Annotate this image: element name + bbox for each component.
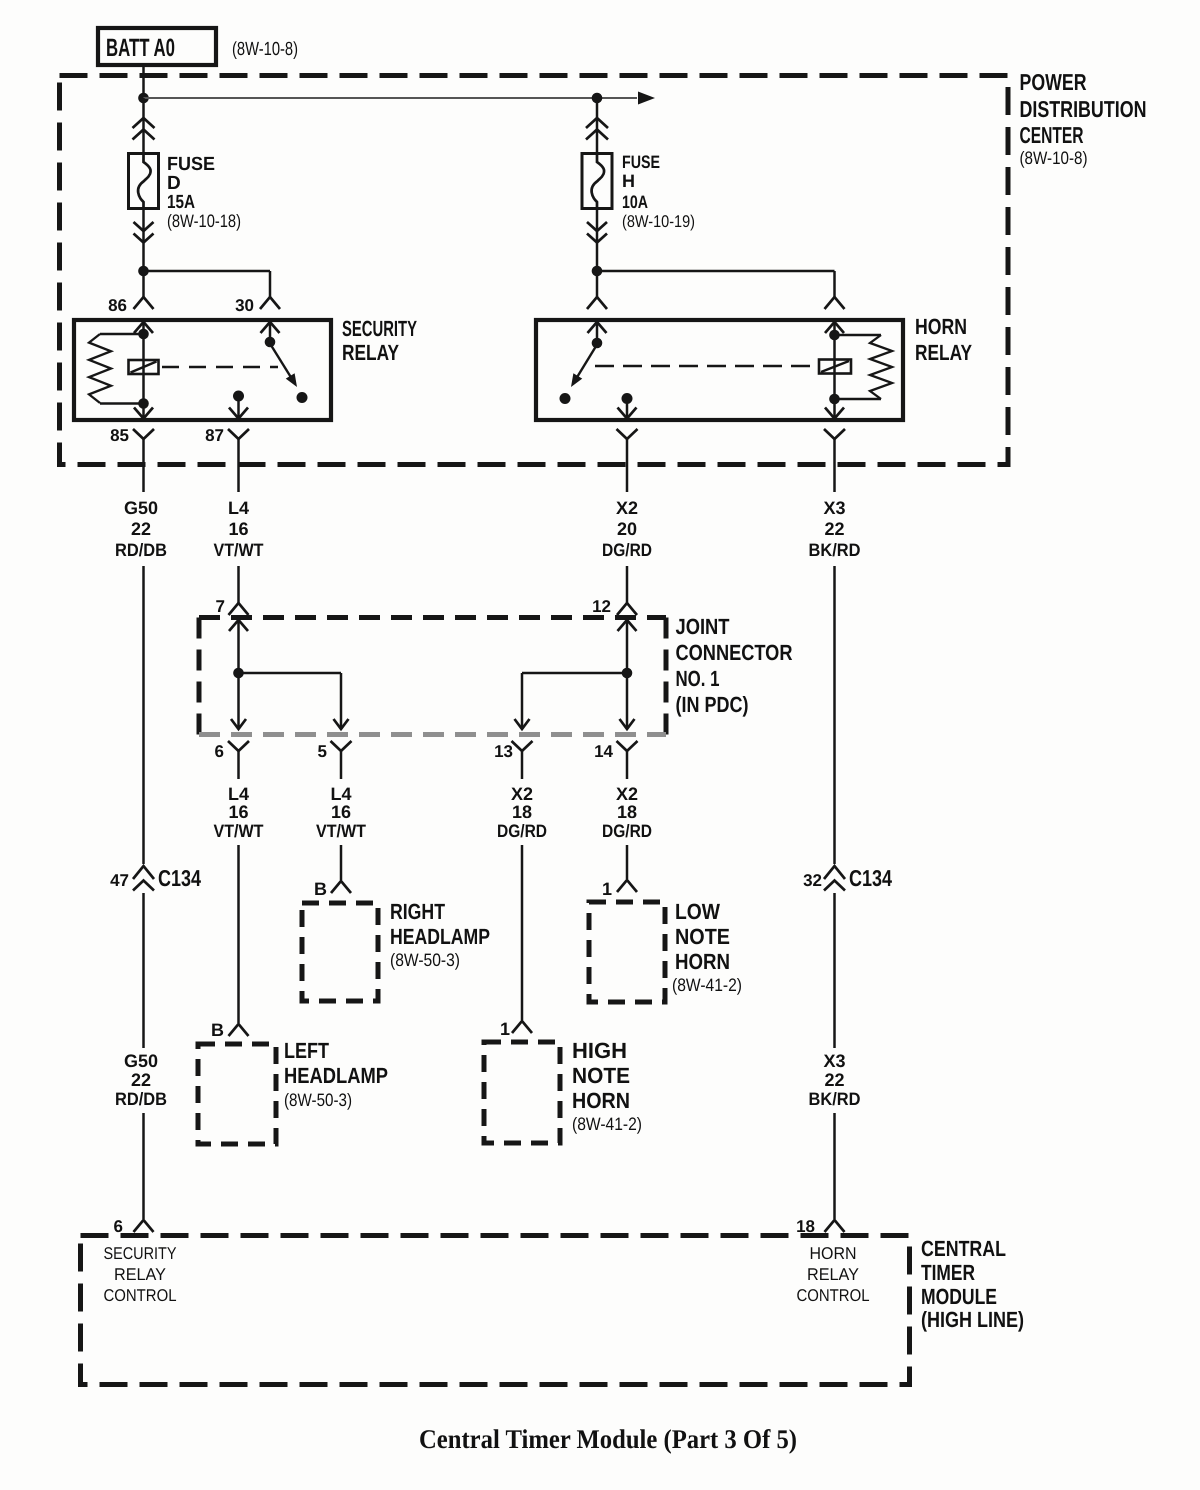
wire from BATT A0 down to bus node xyxy=(142,65,145,98)
pin 86 label xyxy=(108,296,127,315)
pin B right headlamp connector xyxy=(331,881,351,893)
horn output fork connector xyxy=(617,429,638,455)
left headlamp labels xyxy=(284,1038,388,1110)
wire label G50 22 RD/DB lower xyxy=(115,1051,167,1109)
power distribution center dashed box xyxy=(60,76,1009,465)
pin 18 CTM connector xyxy=(825,1220,845,1232)
arrow to pin 13 xyxy=(515,719,530,729)
horn relay output exit chevron xyxy=(618,408,637,419)
wire joint right branch xyxy=(522,673,627,727)
svg-text:X2: X2 xyxy=(616,498,638,518)
svg-text:RD/DB: RD/DB xyxy=(115,540,167,560)
svg-text:18: 18 xyxy=(617,802,637,822)
svg-text:HEADLAMP: HEADLAMP xyxy=(284,1063,388,1088)
svg-text:(8W-10-18): (8W-10-18) xyxy=(167,211,241,231)
pin 6 CTM connector xyxy=(134,1220,154,1232)
pin 1 high note horn label xyxy=(500,1019,510,1039)
node pin 87 contact xyxy=(233,391,244,402)
coil security relay xyxy=(129,334,159,404)
svg-text:VT/WT: VT/WT xyxy=(214,540,264,560)
resistor horn relay xyxy=(835,335,893,399)
wire pin13 to high note horn xyxy=(521,845,524,1020)
svg-text:47: 47 xyxy=(110,871,129,890)
wire node to pin 30 drop xyxy=(144,271,271,297)
wire horn switch pin to pivot xyxy=(596,322,599,343)
wire horn output down xyxy=(626,399,629,420)
svg-text:20: 20 xyxy=(617,519,637,539)
svg-text:BATT A0: BATT A0 xyxy=(106,34,175,62)
svg-text:MODULE: MODULE xyxy=(921,1284,997,1309)
connector C134 right chevrons xyxy=(824,866,845,891)
wire X2 to joint pin 12 xyxy=(626,566,629,603)
contact dot horn switch xyxy=(560,393,571,404)
horn relay coil exit chevron xyxy=(825,408,844,419)
joint pin 7 entry chevron xyxy=(229,620,248,631)
svg-text:RELAY: RELAY xyxy=(807,1265,859,1284)
node fuse H output xyxy=(592,266,603,277)
wire pin14 to low note horn xyxy=(626,845,629,879)
component LOW NOTE HORN dashed box xyxy=(589,902,665,1002)
joint connector no.1 dashed box xyxy=(199,618,666,735)
arrow to pin 5 xyxy=(334,719,349,729)
horn relay switch pin connector xyxy=(587,297,607,309)
svg-text:L4: L4 xyxy=(228,784,249,804)
svg-text:CONTROL: CONTROL xyxy=(797,1286,870,1305)
horn relay name xyxy=(915,314,972,365)
wire G50 to CTM pin 6 xyxy=(142,893,145,1219)
relay SECURITY RELAY box xyxy=(74,320,331,420)
wire label L4 16 VT/WT upper xyxy=(214,498,264,560)
connector C134 right labels xyxy=(803,865,892,891)
wire label L4 16 VT/WT pin5 xyxy=(316,784,366,841)
svg-text:B: B xyxy=(314,879,327,899)
svg-text:NOTE: NOTE xyxy=(675,924,730,949)
svg-text:RIGHT: RIGHT xyxy=(390,899,445,924)
power distribution center title xyxy=(1020,69,1147,168)
svg-text:X3: X3 xyxy=(823,1051,845,1071)
pin 14 label xyxy=(594,742,613,761)
svg-text:(IN PDC): (IN PDC) xyxy=(676,692,749,717)
svg-text:(8W-10-8): (8W-10-8) xyxy=(232,39,298,60)
pin 6 fork connector xyxy=(228,741,249,767)
pin 87 label xyxy=(205,426,224,445)
svg-text:HORN: HORN xyxy=(810,1244,857,1263)
svg-text:HIGH: HIGH xyxy=(572,1038,627,1063)
pin 5 fork connector xyxy=(331,741,352,767)
svg-text:(8W-50-3): (8W-50-3) xyxy=(390,950,460,970)
svg-text:DG/RD: DG/RD xyxy=(602,540,652,560)
horn coil fork connector xyxy=(824,429,845,455)
wire label X2 18 DG/RD pin14 xyxy=(602,784,652,841)
svg-text:LOW: LOW xyxy=(675,899,720,924)
switch arm horn relay xyxy=(571,347,596,387)
horn relay switch entry chevron xyxy=(588,322,607,333)
connector C134 left chevrons xyxy=(133,866,154,891)
svg-text:L4: L4 xyxy=(330,784,351,804)
caption Central Timer Module (Part 3 Of 5) xyxy=(419,1424,797,1454)
pin 13 fork connector xyxy=(512,741,533,767)
wire horn coil to exit xyxy=(833,399,836,419)
svg-text:SECURITY: SECURITY xyxy=(104,1244,177,1263)
wire label L4 16 VT/WT pin6 xyxy=(214,784,264,841)
wire label X3 22 BK/RD upper xyxy=(809,498,861,560)
wire X2 upper segment xyxy=(626,455,629,492)
node security coil bottom xyxy=(138,398,149,409)
svg-text:22: 22 xyxy=(131,1070,151,1090)
svg-text:13: 13 xyxy=(494,742,513,761)
pin B left headlamp connector xyxy=(229,1024,249,1036)
svg-text:X2: X2 xyxy=(616,784,638,804)
svg-text:C134: C134 xyxy=(849,865,892,891)
svg-text:(8W-41-2): (8W-41-2) xyxy=(572,1114,642,1134)
low note horn labels xyxy=(672,899,742,995)
node joint right xyxy=(622,668,633,679)
svg-text:CENTRAL: CENTRAL xyxy=(921,1236,1006,1261)
svg-text:FUSE: FUSE xyxy=(622,152,660,172)
svg-text:G50: G50 xyxy=(124,1051,158,1071)
connector chevrons above fuse D xyxy=(133,118,155,140)
wire X3 to CTM pin 18 xyxy=(833,893,836,1219)
wire fuse D to node xyxy=(142,209,145,272)
component RIGHT HEADLAMP dashed box xyxy=(302,903,378,1001)
wire node down to horn switch pin xyxy=(596,271,599,297)
svg-text:LEFT: LEFT xyxy=(284,1038,329,1063)
wire security coil to pin 85 xyxy=(142,404,145,420)
node security coil top xyxy=(138,329,149,340)
svg-text:H: H xyxy=(622,171,635,191)
wire label X3 22 BK/RD lower xyxy=(809,1051,861,1109)
svg-text:(8W-41-2): (8W-41-2) xyxy=(672,975,742,995)
horn relay coil pin connector xyxy=(825,297,845,309)
svg-text:(8W-10-8): (8W-10-8) xyxy=(1020,148,1088,168)
svg-text:SECURITY: SECURITY xyxy=(342,316,417,341)
fuse D labels xyxy=(167,154,241,231)
pin 7 connector xyxy=(229,603,249,615)
pin 7 label xyxy=(216,597,225,616)
wire L4 to joint pin 7 xyxy=(237,566,240,603)
svg-text:7: 7 xyxy=(216,597,225,616)
node bus junction left xyxy=(138,93,149,104)
wire pin5 to right headlamp xyxy=(340,845,343,880)
pin 18 CTM label xyxy=(796,1217,815,1236)
svg-text:1: 1 xyxy=(500,1019,510,1039)
svg-text:X3: X3 xyxy=(823,498,845,518)
pin 14 fork connector xyxy=(617,741,638,767)
wire joint left branch xyxy=(239,673,342,727)
fuse H xyxy=(582,154,612,209)
svg-text:DG/RD: DG/RD xyxy=(497,821,547,841)
wire label G50 22 RD/DB upper xyxy=(115,498,167,560)
arrow to pin 14 xyxy=(620,719,635,729)
contact dot security switch xyxy=(297,392,308,403)
svg-text:RELAY: RELAY xyxy=(915,340,972,365)
pin 30 connector xyxy=(260,297,280,309)
pin 1 low note horn connector xyxy=(617,880,637,892)
wire label X2 18 DG/RD pin13 xyxy=(497,784,547,841)
svg-text:22: 22 xyxy=(824,1070,844,1090)
wire joint pin 7 to node xyxy=(237,620,240,673)
svg-text:86: 86 xyxy=(108,296,127,315)
svg-text:CONTROL: CONTROL xyxy=(104,1286,177,1305)
svg-text:X2: X2 xyxy=(511,784,533,804)
wire pin6 segment xyxy=(237,767,240,779)
connector chevrons below fuse H xyxy=(587,222,607,243)
security relay pin 30 entry chevron xyxy=(261,322,280,333)
svg-text:16: 16 xyxy=(331,802,351,822)
horn relay control label xyxy=(797,1244,870,1305)
wire joint pin 14 drop xyxy=(626,673,629,727)
svg-text:HEADLAMP: HEADLAMP xyxy=(390,924,490,949)
node fuse D output xyxy=(138,266,149,277)
node horn coil top xyxy=(829,330,840,341)
svg-text:18: 18 xyxy=(512,802,532,822)
svg-text:DISTRIBUTION: DISTRIBUTION xyxy=(1020,96,1147,122)
wire L4 upper segment xyxy=(237,455,240,492)
bus continuation arrow xyxy=(638,92,655,105)
wire joint pin 6 drop xyxy=(237,673,240,727)
component LEFT HEADLAMP dashed box xyxy=(198,1044,276,1144)
svg-text:14: 14 xyxy=(594,742,613,761)
pin 6 CTM label xyxy=(114,1217,123,1236)
svg-text:32: 32 xyxy=(803,871,822,890)
switch arm security relay xyxy=(272,346,298,387)
svg-text:16: 16 xyxy=(228,802,248,822)
pin B left headlamp label xyxy=(211,1020,224,1040)
dashed actuator link horn xyxy=(595,365,818,368)
wire pin 30 to switch xyxy=(269,322,272,342)
connector chevrons above fuse H xyxy=(586,118,608,140)
svg-text:6: 6 xyxy=(215,742,224,761)
battery feed BATT A0 box xyxy=(98,28,216,65)
pin 5 label xyxy=(318,742,327,761)
joint pin 12 entry chevron xyxy=(618,620,637,631)
node security switch pivot xyxy=(265,337,276,348)
svg-text:(8W-50-3): (8W-50-3) xyxy=(284,1090,352,1110)
svg-text:(8W-10-19): (8W-10-19) xyxy=(622,212,695,231)
pin 85 label xyxy=(110,426,129,445)
fuse D xyxy=(129,154,159,209)
svg-text:12: 12 xyxy=(592,597,611,616)
wire pin6 to left headlamp xyxy=(237,845,240,1023)
svg-text:10A: 10A xyxy=(622,192,648,212)
svg-text:B: B xyxy=(211,1020,224,1040)
svg-text:15A: 15A xyxy=(167,192,195,213)
security relay control label xyxy=(104,1244,177,1305)
svg-text:HORN: HORN xyxy=(915,314,967,339)
svg-text:POWER: POWER xyxy=(1020,69,1087,95)
bus wire to the right xyxy=(144,97,638,99)
pin 85 fork connector xyxy=(133,429,154,455)
svg-text:30: 30 xyxy=(235,296,254,315)
node joint left xyxy=(233,668,244,679)
svg-text:BK/RD: BK/RD xyxy=(809,540,861,560)
svg-text:1: 1 xyxy=(602,879,612,899)
module CENTRAL TIMER MODULE dashed box xyxy=(81,1236,910,1385)
pin 1 low note horn label xyxy=(602,879,612,899)
wire X3 to C134 xyxy=(833,566,836,864)
wire label X2 20 DG/RD xyxy=(602,498,652,560)
svg-text:L4: L4 xyxy=(228,498,249,518)
central timer module title xyxy=(921,1236,1024,1332)
wire bus to fuse D xyxy=(142,98,145,153)
wire pin14 segment xyxy=(626,767,629,779)
node horn switch pivot xyxy=(592,338,603,349)
svg-text:(HIGH LINE): (HIGH LINE) xyxy=(921,1307,1024,1332)
relay HORN RELAY box xyxy=(536,320,903,420)
arrow to pin 6 xyxy=(231,719,246,729)
wire pin 87 down xyxy=(237,396,240,419)
svg-text:C134: C134 xyxy=(158,865,201,891)
svg-text:Central Timer Module (Part 3 O: Central Timer Module (Part 3 Of 5) xyxy=(419,1424,797,1454)
svg-text:CENTER: CENTER xyxy=(1020,122,1084,148)
svg-text:RELAY: RELAY xyxy=(114,1265,166,1284)
node bus junction right xyxy=(592,93,603,104)
svg-text:5: 5 xyxy=(318,742,327,761)
svg-text:JOINT: JOINT xyxy=(676,614,730,639)
security relay pin 85 exit chevron xyxy=(134,408,153,419)
svg-text:RD/DB: RD/DB xyxy=(115,1089,167,1109)
svg-text:VT/WT: VT/WT xyxy=(214,821,264,841)
svg-text:VT/WT: VT/WT xyxy=(316,821,366,841)
svg-text:HORN: HORN xyxy=(572,1088,630,1113)
component HIGH NOTE HORN dashed box xyxy=(484,1042,560,1143)
pin 86 connector xyxy=(134,297,154,309)
svg-text:22: 22 xyxy=(131,519,151,539)
svg-text:HORN: HORN xyxy=(675,949,730,974)
resistor security relay xyxy=(89,334,144,404)
wire G50 upper segment xyxy=(142,455,145,492)
fuse H labels xyxy=(622,152,695,231)
svg-text:TIMER: TIMER xyxy=(921,1260,975,1285)
right headlamp labels xyxy=(390,899,490,970)
svg-text:CONNECTOR: CONNECTOR xyxy=(676,640,793,665)
pin 6 label xyxy=(215,742,224,761)
svg-text:BK/RD: BK/RD xyxy=(809,1089,861,1109)
svg-text:85: 85 xyxy=(110,426,129,445)
svg-text:DG/RD: DG/RD xyxy=(602,821,652,841)
security relay pin 87 exit chevron xyxy=(229,408,248,419)
node horn coil bottom xyxy=(829,394,840,405)
wire fuse H to node xyxy=(596,209,599,272)
horn relay coil entry chevron xyxy=(825,322,844,333)
wire pin13 segment xyxy=(521,767,524,779)
high note horn labels xyxy=(572,1038,642,1134)
svg-text:NO. 1: NO. 1 xyxy=(676,666,720,691)
reference (8W-10-8) for BATT A0 xyxy=(232,39,298,60)
wire pin 86 to coil xyxy=(142,322,145,334)
svg-text:D: D xyxy=(167,173,181,194)
svg-text:22: 22 xyxy=(824,519,844,539)
pin 87 fork connector xyxy=(228,429,249,455)
wire bus to fuse H xyxy=(596,98,599,153)
wire joint pin 12 to node xyxy=(626,620,629,673)
svg-text:FUSE: FUSE xyxy=(167,154,215,175)
svg-text:16: 16 xyxy=(228,519,248,539)
svg-text:G50: G50 xyxy=(124,498,158,518)
pin 30 label xyxy=(235,296,254,315)
pin 12 label xyxy=(592,597,611,616)
wire G50 to C134 xyxy=(142,566,145,864)
dashed actuator link security xyxy=(162,366,278,369)
svg-text:87: 87 xyxy=(205,426,224,445)
coil horn relay xyxy=(819,335,851,399)
pin 12 connector xyxy=(617,603,637,615)
connector chevrons below fuse D xyxy=(134,222,154,243)
joint connector title xyxy=(676,614,793,717)
svg-text:RELAY: RELAY xyxy=(342,340,399,365)
security relay name xyxy=(342,316,417,365)
wire node down to pin 86 xyxy=(142,271,145,297)
wire pin5 segment xyxy=(340,767,343,779)
wire horn coil pin down xyxy=(833,322,836,335)
wire node to horn coil drop xyxy=(597,271,835,297)
security relay pin 86 entry chevron xyxy=(134,322,153,333)
pin 13 label xyxy=(494,742,513,761)
wire X3 upper segment xyxy=(833,455,836,492)
svg-text:NOTE: NOTE xyxy=(572,1063,630,1088)
pin 1 high note horn connector xyxy=(512,1021,532,1033)
pin B right headlamp label xyxy=(314,879,327,899)
node horn output contact xyxy=(622,393,633,404)
connector C134 left labels xyxy=(110,865,201,891)
